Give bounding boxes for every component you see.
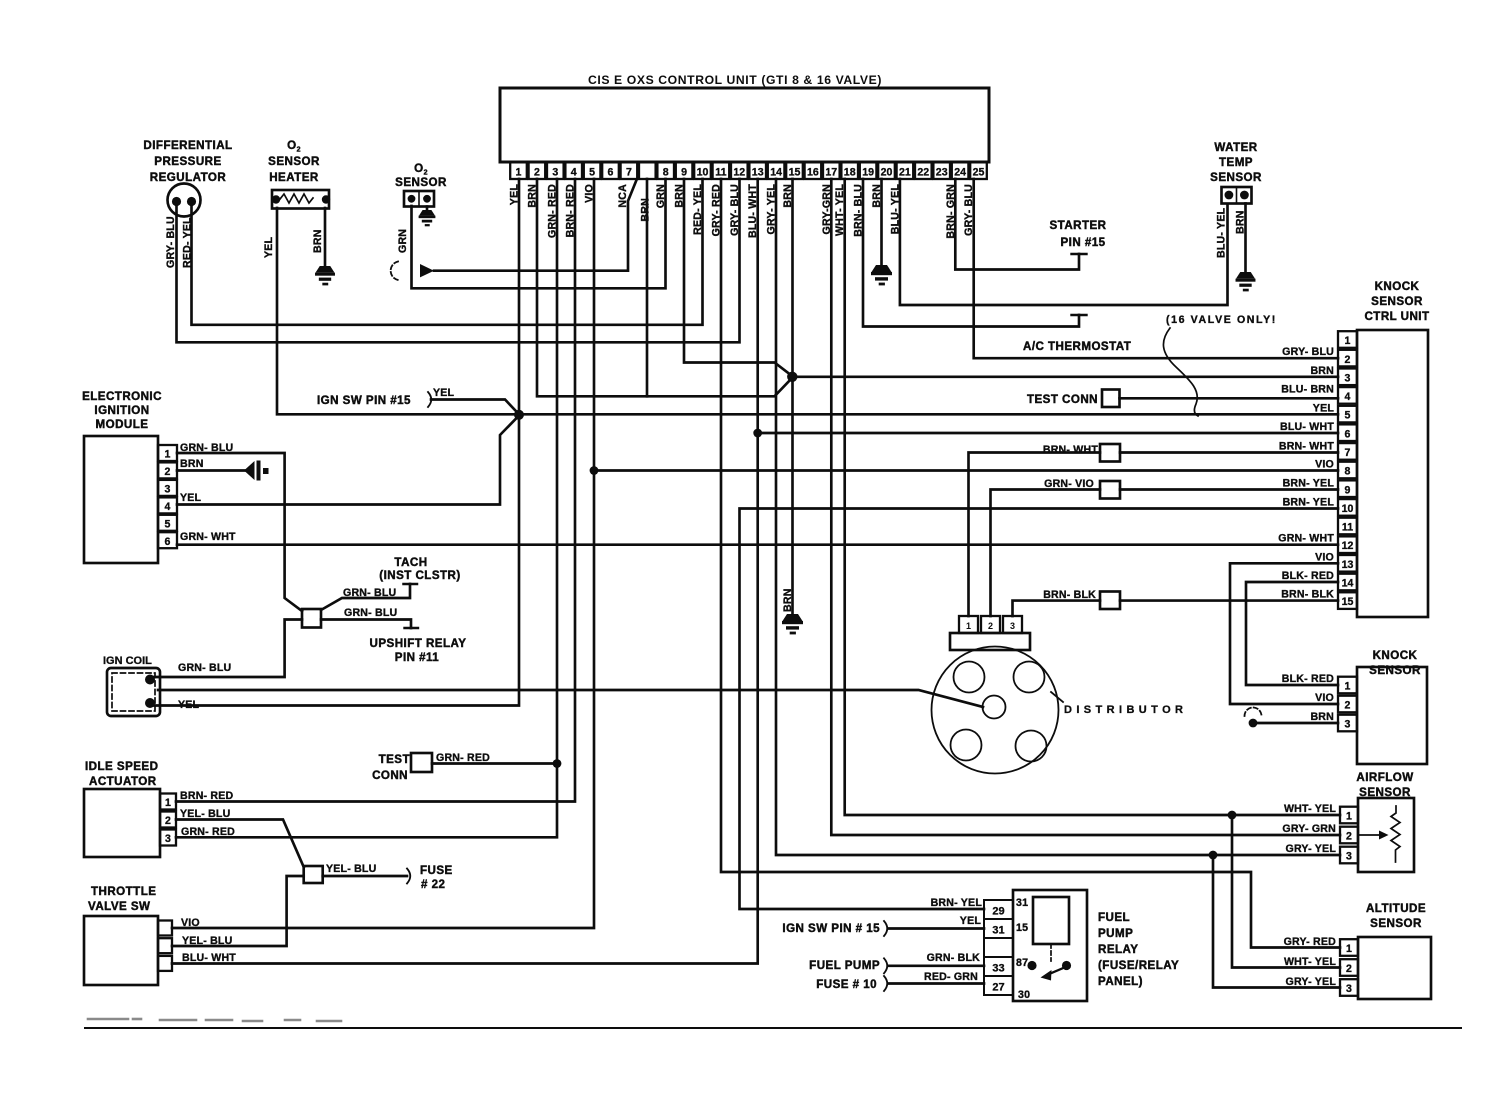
svg-text:PUMP: PUMP bbox=[1098, 927, 1133, 940]
svg-text:ACTUATOR: ACTUATOR bbox=[89, 775, 157, 788]
svg-text:1: 1 bbox=[1346, 943, 1352, 955]
distributor body bbox=[932, 647, 1059, 774]
svg-text:PANEL): PANEL) bbox=[1098, 975, 1143, 988]
svg-text:BRN: BRN bbox=[312, 229, 324, 253]
svg-text:11: 11 bbox=[1342, 522, 1353, 534]
distributor connector pins 1-3 bbox=[959, 616, 1022, 633]
svg-text:BRN: BRN bbox=[782, 588, 794, 612]
knock sensor pins 1-3 bbox=[1338, 677, 1357, 732]
svg-text:SENSOR: SENSOR bbox=[268, 155, 320, 168]
relay contact bbox=[1050, 944, 1052, 961]
svg-text:31: 31 bbox=[1016, 897, 1028, 909]
wire: connector to tach bbox=[321, 584, 410, 610]
wire: O2 heater YEL down to ign junction bbox=[277, 208, 519, 414]
svg-text:GRN- BLU: GRN- BLU bbox=[344, 607, 397, 619]
svg-text:13: 13 bbox=[1342, 559, 1354, 571]
test conn 2 box bbox=[1102, 390, 1120, 408]
wire: BRN-WHT box to knock ctrl pin7 bbox=[1120, 451, 1338, 454]
svg-text:20: 20 bbox=[881, 167, 893, 179]
svg-text:WHT- YEL: WHT- YEL bbox=[1284, 803, 1336, 815]
svg-text:BLK- RED: BLK- RED bbox=[1282, 570, 1334, 582]
wire: knock ctrl pin13 VIO to knock sensor pin2 bbox=[1230, 563, 1338, 704]
svg-text:BLU- WHT: BLU- WHT bbox=[182, 952, 236, 964]
svg-text:30: 30 bbox=[1018, 989, 1030, 1001]
svg-text:CONN: CONN bbox=[372, 769, 408, 782]
airflow sensor pins 1-3 bbox=[1340, 807, 1358, 864]
svg-text:1: 1 bbox=[165, 797, 171, 809]
svg-text:1: 1 bbox=[966, 621, 971, 631]
svg-text:25: 25 bbox=[973, 167, 985, 179]
svg-text:KNOCK: KNOCK bbox=[1373, 649, 1418, 662]
wire: O2 sensor right pin to ground bbox=[426, 207, 429, 211]
wire: pin13 BLU-WHT down to throttle valve sw pin3 bbox=[172, 179, 758, 964]
svg-text:SENSOR: SENSOR bbox=[1370, 917, 1422, 930]
svg-text:GRN- VIO: GRN- VIO bbox=[1044, 478, 1094, 490]
svg-text:FUSE: FUSE bbox=[420, 864, 453, 877]
svg-text:A/C THERMOSTAT: A/C THERMOSTAT bbox=[1023, 340, 1131, 353]
svg-text:5: 5 bbox=[1345, 410, 1351, 422]
node: ign sw junction bbox=[514, 410, 524, 420]
wire: test conn to knock ctrl pin4 bbox=[1120, 397, 1339, 400]
svg-text:24: 24 bbox=[954, 167, 966, 179]
wire: distributor pin2 GRN-VIO up bbox=[991, 490, 1101, 617]
svg-text:27: 27 bbox=[992, 982, 1004, 994]
ground: O2 sensor bbox=[419, 210, 436, 226]
svg-text:GRN- RED: GRN- RED bbox=[436, 752, 490, 764]
svg-text:CIS E OXS CONTROL UNIT (GTI 8: CIS E OXS CONTROL UNIT (GTI 8 & 16 VALVE… bbox=[588, 73, 882, 87]
svg-text:1: 1 bbox=[1345, 681, 1351, 693]
svg-text:1: 1 bbox=[1345, 335, 1351, 347]
svg-text:8: 8 bbox=[663, 167, 669, 179]
wire: VIO branch to knock ctrl pin8 bbox=[594, 469, 1338, 472]
svg-text:12: 12 bbox=[1342, 540, 1354, 552]
wire: pin25 GRY-BLU to knock ctrl pin2 bbox=[974, 179, 1338, 358]
wire: pin18 WHT-YEL to airflow sensor pin1 bbox=[845, 179, 1340, 815]
svg-text:ALTITUDE: ALTITUDE bbox=[1366, 902, 1426, 915]
wire: knock sensor pin3 BRN stub bbox=[1254, 722, 1338, 725]
svg-text:3: 3 bbox=[165, 484, 171, 496]
svg-text:VIO: VIO bbox=[1315, 692, 1334, 704]
svg-text:2: 2 bbox=[165, 815, 171, 827]
svg-text:ELECTRONIC: ELECTRONIC bbox=[82, 390, 162, 403]
svg-text:23: 23 bbox=[936, 167, 948, 179]
svg-text:GRN- BLK: GRN- BLK bbox=[927, 952, 981, 964]
wire: pin3 GRN-RED down to idle speed actuator pin3 bbox=[176, 179, 557, 837]
wire: connector to fuse 22 bbox=[323, 875, 407, 878]
wire: EIM pin2 BRN to suppressor bbox=[177, 469, 245, 472]
relay pin boxes bbox=[984, 900, 1013, 995]
svg-text:87: 87 bbox=[1016, 957, 1028, 969]
svg-text:VIO: VIO bbox=[1315, 551, 1334, 563]
svg-text:33: 33 bbox=[992, 963, 1004, 975]
bottom smudge marks bbox=[88, 1019, 341, 1021]
terminal tick: starter bbox=[1072, 253, 1087, 255]
wire: pin2 BRN down and right to BRN junction bbox=[537, 179, 792, 396]
connector: BRN-BLK inline box bbox=[1100, 592, 1120, 610]
svg-text:YEL: YEL bbox=[960, 915, 982, 927]
svg-text:BRN- WHT: BRN- WHT bbox=[1279, 441, 1334, 453]
idle speed actuator pins 1-3 bbox=[160, 794, 176, 846]
svg-text:SENSOR: SENSOR bbox=[395, 176, 447, 189]
svg-text:BRN- RED: BRN- RED bbox=[180, 790, 234, 802]
water temp sensor connector bbox=[1222, 187, 1252, 204]
svg-text:SENSOR: SENSOR bbox=[1210, 171, 1262, 184]
svg-text:21: 21 bbox=[899, 167, 911, 179]
wire: EIM pin1 GRN-BLU to tach connector bbox=[177, 453, 302, 611]
svg-text:BRN- BLK: BRN- BLK bbox=[1043, 589, 1096, 601]
svg-text:GRY- RED: GRY- RED bbox=[1284, 936, 1337, 948]
svg-text:1: 1 bbox=[1346, 811, 1352, 823]
ground: heater bbox=[315, 266, 335, 285]
svg-text:31: 31 bbox=[992, 925, 1004, 937]
svg-text:19: 19 bbox=[862, 167, 874, 179]
svg-text:YEL- BLU: YEL- BLU bbox=[326, 863, 376, 875]
svg-text:# 22: # 22 bbox=[421, 878, 445, 891]
svg-text:22: 22 bbox=[917, 167, 929, 179]
svg-text:IGN COIL: IGN COIL bbox=[103, 655, 152, 667]
airflow sensor wiper arrow bbox=[1358, 834, 1380, 836]
svg-text:29: 29 bbox=[992, 906, 1004, 918]
wire: junction YEL to knock ctrl pin5 bbox=[519, 413, 1338, 416]
terminal tick: A/C thermostat bbox=[1072, 314, 1087, 316]
svg-text:3: 3 bbox=[1346, 851, 1352, 863]
throttle valve sw box bbox=[84, 916, 158, 985]
svg-text:TEST: TEST bbox=[379, 753, 410, 766]
wire: throttle pin2 YEL-BLU up to connector bbox=[172, 876, 304, 946]
svg-text:GRN- BLU: GRN- BLU bbox=[178, 662, 231, 674]
svg-text:THROTTLE: THROTTLE bbox=[91, 885, 156, 898]
altitude sensor box bbox=[1358, 937, 1431, 999]
svg-text:18: 18 bbox=[844, 167, 856, 179]
knock sensor box bbox=[1357, 667, 1427, 764]
svg-text:(FUSE/RELAY: (FUSE/RELAY bbox=[1098, 959, 1179, 972]
altitude sensor pins 1-3 bbox=[1340, 939, 1358, 996]
svg-text:BRN- YEL: BRN- YEL bbox=[1283, 497, 1335, 509]
airflow sensor internal resistor bbox=[1391, 806, 1400, 862]
svg-text:HEATER: HEATER bbox=[269, 171, 319, 184]
wire: pin4 BRN-RED down to idle speed actuator pin1 bbox=[176, 179, 575, 802]
svg-text:VALVE SW: VALVE SW bbox=[88, 900, 150, 913]
wire: water temp BRN to ground bbox=[1244, 204, 1247, 273]
airflow sensor box bbox=[1358, 798, 1414, 872]
svg-text:WATER: WATER bbox=[1214, 141, 1257, 154]
svg-text:BLU- BRN: BLU- BRN bbox=[1281, 384, 1334, 396]
svg-text:FUEL PUMP: FUEL PUMP bbox=[809, 959, 880, 972]
svg-text:DISTRIBUTOR: DISTRIBUTOR bbox=[1064, 704, 1187, 716]
svg-text:17: 17 bbox=[825, 167, 837, 179]
svg-text:YEL: YEL bbox=[1313, 402, 1335, 414]
O2 sensor heater element bbox=[272, 190, 329, 209]
ground: BRN net near distributor bbox=[782, 614, 803, 634]
svg-text:BRN: BRN bbox=[1310, 711, 1334, 723]
bottom rule bbox=[85, 1027, 1461, 1029]
relay coil box bbox=[1033, 897, 1069, 944]
differential pressure regulator body bbox=[168, 184, 201, 217]
svg-text:GRY- YEL: GRY- YEL bbox=[1286, 843, 1337, 855]
svg-text:CTRL UNIT: CTRL UNIT bbox=[1364, 310, 1429, 323]
wire: ign sw pin15 YEL to relay pin31 bbox=[888, 927, 984, 930]
wire: fuel pump GRN-BLK to relay pin33 bbox=[888, 964, 984, 967]
wire: distributor pin1 BRN-WHT up bbox=[969, 453, 1101, 617]
svg-text:3: 3 bbox=[552, 167, 558, 179]
control unit pin row (pins 1-25) bbox=[510, 162, 987, 179]
svg-text:IGN SW PIN #15: IGN SW PIN #15 bbox=[317, 394, 411, 407]
svg-text:15: 15 bbox=[1016, 922, 1028, 934]
svg-text:(INST CLSTR): (INST CLSTR) bbox=[379, 569, 460, 582]
node: GRY-YEL branch bbox=[1209, 851, 1218, 860]
svg-text:VIO: VIO bbox=[1315, 459, 1334, 471]
svg-text:2: 2 bbox=[1345, 354, 1351, 366]
svg-text:IGNITION: IGNITION bbox=[94, 404, 149, 417]
throttle valve sw pins bbox=[158, 921, 172, 971]
svg-text:PRESSURE: PRESSURE bbox=[154, 155, 221, 168]
svg-text:16: 16 bbox=[807, 167, 819, 179]
wire: heater BRN to ground bbox=[324, 208, 327, 266]
svg-text:3: 3 bbox=[1345, 719, 1351, 731]
svg-text:2: 2 bbox=[1345, 700, 1351, 712]
svg-text:GRN: GRN bbox=[397, 229, 409, 253]
wire: connector to upshift relay bbox=[321, 620, 411, 629]
wire: test conn GRN-RED to pin3 net bbox=[432, 762, 557, 765]
connector: GRN-VIO inline box bbox=[1100, 481, 1120, 499]
wire: coil to distributor rotor bbox=[158, 690, 983, 707]
svg-text:RED- YEL: RED- YEL bbox=[182, 217, 194, 268]
svg-text:6: 6 bbox=[608, 167, 614, 179]
wire: pin19 BRN-BLU to A/C thermostat bbox=[863, 179, 1079, 327]
node: test conn tap on GRN-RED bbox=[553, 759, 562, 768]
svg-text:9: 9 bbox=[1345, 484, 1351, 496]
svg-text:STARTER: STARTER bbox=[1049, 219, 1106, 232]
svg-text:15: 15 bbox=[1342, 596, 1354, 608]
svg-text:10: 10 bbox=[697, 167, 709, 179]
wire: pin8 GRN left to O2 sensor bbox=[412, 179, 666, 288]
svg-text:4: 4 bbox=[165, 501, 171, 513]
svg-text:4: 4 bbox=[571, 167, 577, 179]
knock sensor ctrl unit pins 1-15 bbox=[1338, 331, 1357, 609]
connector: inline connector on BRN (arrow + dashed arc) bbox=[391, 262, 398, 281]
node: BLU-WHT branch bbox=[753, 429, 762, 438]
svg-text:KNOCK: KNOCK bbox=[1375, 280, 1420, 293]
wire: BRN junction to knock ctrl pin3 bbox=[792, 375, 1338, 378]
svg-text:IGN SW PIN # 15: IGN SW PIN # 15 bbox=[782, 922, 880, 935]
wire: pin10 RED-YEL to diff pressure regulator bbox=[192, 179, 703, 325]
wire: fuse 10 RED-GRN to relay pin27 bbox=[888, 982, 984, 985]
svg-text:YEL: YEL bbox=[263, 236, 275, 258]
svg-text:6: 6 bbox=[1345, 428, 1351, 440]
test conn box bbox=[411, 753, 432, 772]
svg-text:BRN- YEL: BRN- YEL bbox=[931, 897, 983, 909]
svg-text:3: 3 bbox=[1345, 372, 1351, 384]
wire: pin24 BRN-GRN to starter pin15 bbox=[955, 179, 1079, 270]
svg-text:1: 1 bbox=[165, 449, 171, 461]
svg-text:AIRFLOW: AIRFLOW bbox=[1356, 771, 1413, 784]
wire: coil GRN-BLU up to connector bbox=[152, 620, 302, 678]
svg-text:2: 2 bbox=[988, 621, 993, 631]
svg-text:GRY- GRN: GRY- GRN bbox=[1282, 823, 1336, 835]
wire: BLU-WHT branch to knock ctrl pin6 bbox=[758, 432, 1338, 435]
svg-text:4: 4 bbox=[1345, 391, 1351, 403]
pin wire colour labels bbox=[509, 184, 976, 239]
svg-text:YEL: YEL bbox=[178, 699, 200, 711]
knock sensor ctrl unit box bbox=[1357, 330, 1428, 617]
wire: pin14 GRY-YEL to airflow sensor pin3 bbox=[776, 179, 1340, 855]
wire: pin21 BLU-YEL to water temp sensor bbox=[900, 179, 1228, 305]
svg-text:14: 14 bbox=[770, 167, 782, 179]
distributor pointer + label bbox=[1051, 692, 1063, 702]
control unit U1 box bbox=[500, 88, 989, 162]
svg-text:5: 5 bbox=[589, 167, 595, 179]
connector: tach/upshift junction box bbox=[302, 609, 321, 628]
wire: blank pin stub joining BRN net bbox=[646, 179, 649, 396]
svg-text:15: 15 bbox=[789, 167, 801, 179]
wire: pin17 GRY-GRN to airflow sensor pin2 bbox=[831, 179, 1340, 835]
svg-text:13: 13 bbox=[752, 167, 764, 179]
svg-text:PIN #15: PIN #15 bbox=[1060, 236, 1105, 249]
svg-text:BLU- YEL: BLU- YEL bbox=[1216, 207, 1228, 258]
idle speed actuator box bbox=[84, 789, 160, 857]
svg-text:WHT- YEL: WHT- YEL bbox=[1284, 956, 1336, 968]
svg-text:GRY- BLU: GRY- BLU bbox=[1282, 346, 1334, 358]
wire: pin9 BRN to BRN junction bbox=[684, 179, 792, 376]
svg-text:10: 10 bbox=[1342, 503, 1354, 515]
wire: knock pin10 BRN-YEL down to relay pin29 bbox=[740, 509, 1339, 910]
svg-text:5: 5 bbox=[165, 518, 171, 530]
wire: knock ctrl pin14 BLK-RED to knock sensor pin1 bbox=[1246, 582, 1338, 685]
svg-text:YEL: YEL bbox=[433, 387, 455, 399]
svg-text:BLU- WHT: BLU- WHT bbox=[1280, 421, 1334, 433]
svg-text:YEL- BLU: YEL- BLU bbox=[182, 935, 232, 947]
suppressor symbol (EIM pin2) bbox=[244, 461, 269, 481]
svg-text:BRN- YEL: BRN- YEL bbox=[1283, 478, 1335, 490]
svg-text:GRY- BLU: GRY- BLU bbox=[165, 216, 177, 268]
svg-text:11: 11 bbox=[715, 167, 726, 179]
svg-text:IDLE SPEED: IDLE SPEED bbox=[85, 760, 158, 773]
connector: YEL-BLU junction box bbox=[304, 866, 323, 883]
svg-text:3: 3 bbox=[165, 833, 171, 845]
svg-text:7: 7 bbox=[1345, 447, 1351, 459]
wire: pin15 BRN vertical to ground near distributor bbox=[791, 179, 794, 614]
node: BRN junction bbox=[787, 372, 797, 382]
ground: water temp bbox=[1236, 272, 1256, 291]
svg-text:BRN: BRN bbox=[180, 458, 204, 470]
wire: ign sw pin15 lead bbox=[431, 400, 519, 415]
svg-text:TEST CONN: TEST CONN bbox=[1027, 393, 1098, 406]
wire: pin1 YEL net (ign sw / EIM pin4 / ign coil) bbox=[152, 179, 519, 706]
knock ctrl wire labels bbox=[1278, 346, 1334, 600]
svg-text:SENSOR: SENSOR bbox=[1371, 295, 1423, 308]
svg-text:GRN- BLU: GRN- BLU bbox=[343, 587, 396, 599]
wire: EIM pin6 GRN-WHT to knock ctrl pin12 bbox=[177, 543, 1338, 546]
svg-text:MODULE: MODULE bbox=[96, 418, 149, 431]
svg-text:2: 2 bbox=[534, 167, 540, 179]
wire: pin5 VIO down to throttle valve sw pin1 bbox=[172, 179, 594, 928]
svg-text:PIN #11: PIN #11 bbox=[395, 651, 440, 664]
electronic ignition module pins 1-6 bbox=[158, 445, 177, 548]
svg-text:UPSHIFT RELAY: UPSHIFT RELAY bbox=[370, 637, 467, 650]
wire: pin20 BRN to ground bbox=[880, 179, 883, 265]
svg-text:BLK- RED: BLK- RED bbox=[1282, 673, 1334, 685]
node: VIO branch bbox=[590, 466, 599, 475]
svg-text:FUSE # 10: FUSE # 10 bbox=[816, 978, 877, 991]
svg-text:GRY- YEL: GRY- YEL bbox=[1286, 976, 1337, 988]
svg-text:FUEL: FUEL bbox=[1098, 911, 1130, 924]
svg-text:7: 7 bbox=[626, 167, 632, 179]
wire: pin7 NCA/BRN diagonal down to inline connector bbox=[434, 180, 637, 271]
svg-text:BRN: BRN bbox=[1310, 365, 1334, 377]
svg-text:DIFFERENTIAL: DIFFERENTIAL bbox=[143, 139, 232, 152]
svg-text:2: 2 bbox=[1346, 963, 1352, 975]
svg-text:8: 8 bbox=[1345, 466, 1351, 478]
svg-text:(16 VALVE ONLY!: (16 VALVE ONLY! bbox=[1166, 314, 1277, 326]
wire: pin11 GRY-RED to altitude sensor pin1 bbox=[721, 179, 1340, 948]
svg-text:VIO: VIO bbox=[181, 917, 200, 929]
wire: EIM pin4 YEL to junction bbox=[177, 416, 519, 505]
svg-text:2: 2 bbox=[1346, 831, 1352, 843]
O2 sensor connector bbox=[404, 191, 434, 207]
fuel pump relay outer box bbox=[1013, 890, 1087, 1001]
ground: pin20 bbox=[871, 265, 892, 285]
electronic ignition module box bbox=[84, 436, 158, 563]
svg-text:BRN: BRN bbox=[640, 198, 652, 222]
svg-text:YEL: YEL bbox=[180, 492, 202, 504]
svg-text:REGULATOR: REGULATOR bbox=[150, 171, 227, 184]
svg-text:RED- GRN: RED- GRN bbox=[924, 971, 978, 983]
svg-text:RELAY: RELAY bbox=[1098, 943, 1138, 956]
svg-text:TACH: TACH bbox=[394, 556, 427, 569]
wire: distributor pin3 BRN-BLK up bbox=[1013, 601, 1101, 616]
node: WHT-YEL branch bbox=[1228, 811, 1237, 820]
svg-text:GRN- RED: GRN- RED bbox=[181, 826, 235, 838]
wire: pin12 GRY-BLU to diff pressure regulator bbox=[177, 179, 740, 342]
svg-text:TEMP: TEMP bbox=[1219, 156, 1253, 169]
wire: GRN-VIO box to knock ctrl pin9 bbox=[1120, 488, 1338, 491]
svg-text:BRN- BLK: BRN- BLK bbox=[1281, 589, 1334, 601]
svg-text:2: 2 bbox=[165, 466, 171, 478]
wire: WHT-YEL branch down to altitude sensor pin2 bbox=[1232, 815, 1340, 968]
wire: BRN-BLK box to knock ctrl pin15 bbox=[1120, 599, 1338, 602]
svg-text:1: 1 bbox=[516, 167, 522, 179]
svg-text:14: 14 bbox=[1342, 578, 1354, 590]
wire: GRY-YEL branch down to altitude sensor pin3 bbox=[1213, 855, 1340, 988]
svg-text:6: 6 bbox=[165, 536, 171, 548]
svg-text:BRN- WHT: BRN- WHT bbox=[1043, 444, 1098, 456]
ign coil box bbox=[107, 668, 160, 716]
wire: idle pin2 YEL-BLU to fuse connector bbox=[176, 820, 304, 868]
svg-text:GRN- WHT: GRN- WHT bbox=[1278, 533, 1334, 545]
svg-text:3: 3 bbox=[1346, 983, 1352, 995]
distributor connector base bbox=[950, 633, 1030, 650]
svg-text:12: 12 bbox=[733, 167, 745, 179]
svg-text:3: 3 bbox=[1010, 621, 1015, 631]
svg-text:9: 9 bbox=[681, 167, 687, 179]
svg-text:GRN- WHT: GRN- WHT bbox=[180, 531, 236, 543]
connector: BRN-WHT inline box bbox=[1100, 444, 1120, 462]
